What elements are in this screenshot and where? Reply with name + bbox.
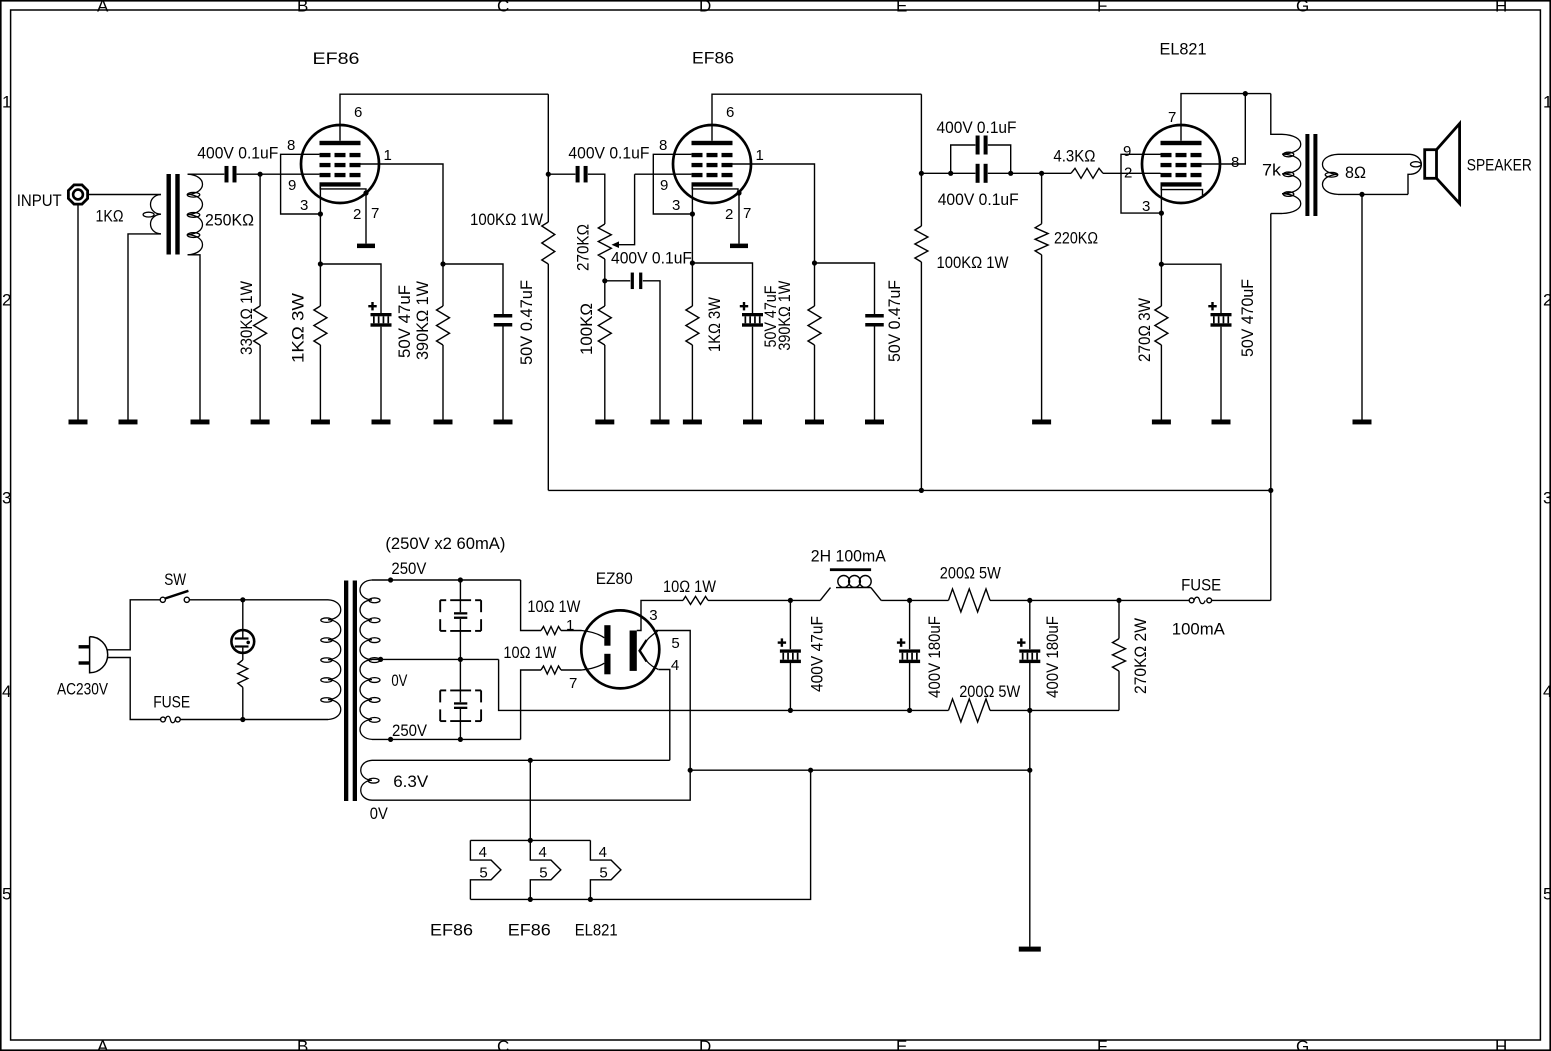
node C14 top <box>788 598 793 603</box>
wire pot to C6 <box>605 280 630 282</box>
transformer T-OUT primary coil (7k) <box>1262 94 1301 214</box>
pin 7 label EZ80 <box>569 675 577 692</box>
node V1 pin2/7 <box>363 190 368 195</box>
svg-text:6: 6 <box>726 104 734 121</box>
heater jumper block EF86 #1 <box>430 840 501 939</box>
pin 9 label V2 <box>660 177 668 194</box>
ground R5 <box>595 420 614 425</box>
resistor R5 100K&#937; <box>577 281 611 420</box>
node caps left <box>948 171 953 176</box>
svg-text:7: 7 <box>743 205 751 222</box>
ground R2 <box>311 420 330 425</box>
wire secondary top lead to speaker <box>1338 153 1410 155</box>
svg-text:270KΩ: 270KΩ <box>574 224 593 271</box>
svg-text:270Ω 3W: 270Ω 3W <box>1135 298 1154 362</box>
transformer T-PWR heater coil (6.3V) <box>361 760 379 800</box>
pin 3 label V1 <box>300 197 308 214</box>
capacitor C16 400V 180uF <box>1017 600 1062 710</box>
svg-text:SPEAKER: SPEAKER <box>1467 156 1532 175</box>
wire V3 plate to top rail <box>1181 94 1271 141</box>
resistor R12 lamp dropper <box>238 648 248 720</box>
potentiometer VR1 270K&#937; <box>574 174 635 281</box>
resistor R9 220K&#937; <box>1035 173 1098 419</box>
wire top tap to R13 <box>521 580 541 631</box>
capacitor C1 400V 0.1uF <box>197 144 278 183</box>
wire V2 cathode chain <box>691 187 693 306</box>
svg-text:EF86: EF86 <box>430 921 473 940</box>
node VR1 bottom <box>602 278 607 283</box>
wire C7 to ground <box>752 327 754 420</box>
fuse F1 (mains FUSE) <box>153 693 190 723</box>
label 0V center <box>391 671 408 690</box>
node block3 return <box>588 897 593 902</box>
svg-text:250V: 250V <box>392 721 428 740</box>
wire main ground riser <box>1029 710 1031 946</box>
svg-text:2: 2 <box>353 206 361 223</box>
svg-text:D: D <box>699 0 711 16</box>
ground main PSU <box>1019 947 1041 952</box>
svg-text:4: 4 <box>599 844 607 861</box>
svg-text:270KΩ 2W: 270KΩ 2W <box>1131 618 1150 694</box>
svg-text:8: 8 <box>1231 154 1239 171</box>
transformer T-OUT core <box>1305 134 1317 216</box>
transformer T-PWR HT secondary coil <box>360 580 380 739</box>
svg-text:4: 4 <box>2 682 11 701</box>
svg-text:400V 0.1uF: 400V 0.1uF <box>568 144 649 163</box>
svg-text:3: 3 <box>1543 489 1551 508</box>
wire secondary top to C1 <box>188 173 224 175</box>
svg-text:50V 47uF: 50V 47uF <box>395 285 414 358</box>
svg-text:F: F <box>1097 1037 1107 1051</box>
pin 9 label V1 <box>288 177 296 194</box>
capacitor C13 snubber <box>440 690 481 739</box>
svg-text:10Ω 1W: 10Ω 1W <box>527 597 580 616</box>
capacitor C5 400V 0.1uF <box>568 144 649 183</box>
capacitor C4 50V 0.47uF <box>494 280 536 365</box>
node tap 0V <box>378 657 383 662</box>
ground jack sleeve <box>69 420 88 425</box>
pin 5 label EZ80 <box>671 635 679 652</box>
pin 7 label V3 <box>1168 109 1176 126</box>
svg-text:400V 0.1uF: 400V 0.1uF <box>197 144 278 163</box>
wire V3 screen to rail <box>1202 94 1246 164</box>
svg-text:INPUT: INPUT <box>17 191 62 210</box>
wire fuse to transformer <box>180 719 328 721</box>
switch SW <box>160 570 189 602</box>
resistor R2 1K&#937; 3W <box>289 293 327 420</box>
wire jack tip to transformer primary <box>88 194 161 196</box>
ground R9 <box>1032 420 1051 425</box>
node heater feed <box>528 758 533 763</box>
ground C6 <box>651 420 670 425</box>
svg-text:EZ80: EZ80 <box>596 569 633 588</box>
node rail at R8 <box>919 488 924 493</box>
svg-text:F: F <box>1097 0 1107 16</box>
wire V1 pin8 strap <box>281 154 321 214</box>
svg-text:400V 0.1uF: 400V 0.1uF <box>938 190 1019 209</box>
ground speaker return <box>1353 420 1372 425</box>
wire C5 to pot top <box>588 174 605 224</box>
node V1 cathode-box <box>318 211 323 216</box>
wire lower cap branch <box>951 172 1011 174</box>
wire EZ80 pin3 to B+ <box>637 600 683 630</box>
svg-text:5: 5 <box>2 885 11 904</box>
wire EZ80 pin4 <box>658 670 669 761</box>
heater jumper block EL821 <box>575 840 621 939</box>
pin 3 label V3 <box>1142 198 1150 215</box>
speaker SP1 <box>1425 124 1532 204</box>
wire V2 plate to top rail <box>712 94 921 141</box>
wire T-OUT primary bottom to B+ riser <box>1270 214 1272 601</box>
wire HT center tap <box>372 658 499 660</box>
transformer T-IN secondary coil (250K&#937;) <box>187 174 254 255</box>
pin 2 label V1 <box>353 206 361 223</box>
wire V1 screen <box>361 164 444 306</box>
svg-text:B: B <box>297 1037 308 1051</box>
node block2 feed <box>528 838 533 843</box>
ground R11 <box>1152 420 1171 425</box>
wire plug live <box>107 600 160 650</box>
neon lamp NE1 <box>231 600 254 653</box>
wire V2 pin8 strap <box>653 154 692 214</box>
wire bottom tap to R14 <box>521 670 541 739</box>
wire switch to transformer <box>189 599 328 601</box>
pin 6 label V2 <box>726 104 734 121</box>
svg-text:7: 7 <box>371 205 379 222</box>
transformer T-OUT secondary coil (8&#937;) <box>1322 154 1366 194</box>
svg-text:EL821: EL821 <box>575 921 618 940</box>
svg-text:4: 4 <box>671 657 679 674</box>
svg-text:100KΩ 1W: 100KΩ 1W <box>470 210 543 229</box>
wire primary bottom to ground <box>128 234 161 420</box>
svg-text:220KΩ: 220KΩ <box>1054 229 1098 248</box>
node tap 250V top <box>388 577 393 582</box>
wire C11 to ground <box>1220 327 1222 420</box>
ground V1 pin7 <box>357 244 375 249</box>
ground input primary <box>119 420 138 425</box>
node V1 plate junction <box>546 172 551 177</box>
capacitor C7 50V 47uF <box>740 286 780 348</box>
wire fuse to riser <box>1212 599 1271 601</box>
wire plug neutral <box>107 658 161 720</box>
svg-text:4: 4 <box>479 844 487 861</box>
pin 4 label EZ80 <box>671 657 679 674</box>
capacitor C14 400V 47uF <box>778 600 827 710</box>
svg-text:EF86: EF86 <box>313 49 360 68</box>
svg-text:6.3V: 6.3V <box>393 772 429 791</box>
wire speaker return to ground <box>1361 194 1363 419</box>
svg-text:2: 2 <box>2 291 11 310</box>
transformer T-PWR primary coil <box>321 600 341 720</box>
svg-text:3: 3 <box>300 197 308 214</box>
node R18 top <box>1116 598 1121 603</box>
node V3 cathode <box>1159 211 1164 216</box>
ground input secondary <box>191 420 210 425</box>
svg-text:1KΩ: 1KΩ <box>96 207 124 226</box>
node B+ riser to rail <box>1268 488 1273 493</box>
wire caps to R10 junction <box>1011 172 1071 174</box>
svg-text:5: 5 <box>539 865 547 882</box>
wire heater block feed <box>529 760 531 840</box>
node snubber bottom <box>458 737 463 742</box>
svg-text:9: 9 <box>660 177 668 194</box>
node heater 0V junction <box>688 768 693 773</box>
wire heater blocks bottom rail <box>470 770 810 899</box>
ground R7 <box>805 420 824 425</box>
wire V1 plate to top rail <box>340 94 548 141</box>
wire R14 to EZ80 pin7 <box>561 669 582 671</box>
pin 8 label V3 <box>1231 154 1239 171</box>
svg-text:G: G <box>1296 0 1309 16</box>
svg-text:7: 7 <box>1168 109 1176 126</box>
svg-text:C: C <box>497 0 509 16</box>
node C15 top <box>907 598 912 603</box>
capacitor C15 400V 180uF <box>897 600 944 710</box>
svg-text:6: 6 <box>354 104 362 121</box>
svg-text:B: B <box>297 0 308 16</box>
svg-text:4.3KΩ: 4.3KΩ <box>1053 147 1095 166</box>
pin 2 label V3 <box>1124 165 1132 182</box>
svg-text:D: D <box>699 1037 711 1051</box>
label power rating <box>385 534 505 553</box>
svg-text:2: 2 <box>725 206 733 223</box>
svg-text:5: 5 <box>479 865 487 882</box>
wire secondary bottom to ground <box>188 255 200 420</box>
pin 1 label V1 <box>384 147 392 164</box>
svg-text:330KΩ 1W: 330KΩ 1W <box>237 281 256 355</box>
tube V1 EF86 <box>301 49 379 203</box>
svg-text:390KΩ 1W: 390KΩ 1W <box>413 281 432 360</box>
resistor R6 1K&#937; 3W <box>686 297 724 420</box>
svg-text:1: 1 <box>1543 93 1551 112</box>
node V1 screen junction <box>440 261 445 266</box>
resistor R4 100K&#937; 1W plate load <box>470 94 555 490</box>
wire R16 to fuse <box>990 599 1189 601</box>
svg-text:250V: 250V <box>391 559 427 578</box>
pin 3 label V2 <box>672 197 680 214</box>
ground V2 pin7 <box>730 244 748 249</box>
svg-text:3: 3 <box>2 489 11 508</box>
fuse F2 100mA <box>1172 576 1226 639</box>
wire B+ bottom rail <box>548 489 1271 491</box>
node V2 cathode-box <box>690 211 695 216</box>
node lamp top <box>240 597 245 602</box>
svg-text:SW: SW <box>164 570 186 589</box>
svg-text:0V: 0V <box>391 671 408 690</box>
label 0V heater <box>370 804 389 823</box>
svg-text:250KΩ: 250KΩ <box>205 211 254 230</box>
wire V3 cathode chain <box>1160 187 1162 306</box>
node speaker return <box>1359 192 1364 197</box>
resistor R17 200&#937; 5W <box>949 682 1021 722</box>
wire B- rail right <box>990 709 1119 711</box>
wire V3 pin9 strap <box>1121 154 1161 213</box>
ground C11 <box>1212 420 1231 425</box>
ground R3 <box>434 420 453 425</box>
wire heater rail to ground riser <box>690 769 1030 771</box>
svg-text:A: A <box>97 0 109 16</box>
node ground riser heater <box>1027 768 1032 773</box>
pin 6 label V1 <box>354 104 362 121</box>
svg-text:2: 2 <box>1543 291 1551 310</box>
wire heater blocks top rail <box>470 839 590 841</box>
svg-text:C: C <box>497 1037 509 1051</box>
choke L1 2H 100mA <box>811 547 887 601</box>
svg-text:10Ω 1W: 10Ω 1W <box>663 577 716 596</box>
tube V2 EF86 <box>673 48 751 203</box>
wire 0V heater rail <box>372 631 690 801</box>
tube V4 EZ80 <box>581 569 659 688</box>
svg-text:5: 5 <box>1543 885 1551 904</box>
resistor R16 200&#937; 5W <box>940 564 1001 612</box>
svg-text:100KΩ 1W: 100KΩ 1W <box>937 253 1009 272</box>
wire plate to C5 <box>548 173 575 175</box>
svg-text:G: G <box>1296 1037 1309 1051</box>
node V2 cathode-bypass <box>690 260 695 265</box>
svg-text:E: E <box>896 0 907 16</box>
svg-text:9: 9 <box>1123 143 1131 160</box>
svg-text:1: 1 <box>566 617 574 634</box>
svg-text:E: E <box>896 1037 907 1051</box>
wire V1 cathode chain <box>319 187 321 306</box>
transformer T-IN core <box>167 174 180 255</box>
wire V2 cathode to C7 <box>692 263 752 313</box>
svg-text:EL821: EL821 <box>1160 40 1207 59</box>
wire C3 to ground <box>380 327 382 420</box>
wire center tap to B- rail <box>499 659 949 710</box>
node snubber top <box>458 577 463 582</box>
pin 1 label V2 <box>756 147 764 164</box>
svg-text:H: H <box>1495 0 1507 16</box>
wire C4 to ground <box>502 327 504 420</box>
svg-text:8Ω: 8Ω <box>1345 163 1366 182</box>
wire HT bottom tap <box>372 738 521 740</box>
wire 6.3V rail <box>372 759 670 761</box>
svg-text:1: 1 <box>2 93 11 112</box>
svg-text:8: 8 <box>659 137 667 154</box>
node C14 bottom <box>788 708 793 713</box>
wire R15 to C14 <box>708 599 820 601</box>
svg-text:EF86: EF86 <box>508 921 551 940</box>
pin 3 label EZ80 <box>649 607 657 624</box>
pin 7 label V2 <box>743 205 751 222</box>
pin 8 label V2 <box>659 137 667 154</box>
capacitor C8 50V 0.47uF <box>865 280 904 362</box>
resistor R7 390K&#937; 1W <box>775 281 821 420</box>
svg-text:50V 0.47uF: 50V 0.47uF <box>885 280 904 362</box>
node caps right <box>1008 171 1013 176</box>
ground C3 <box>372 420 391 425</box>
wire choke to R16 <box>881 599 948 601</box>
svg-text:FUSE: FUSE <box>153 693 190 712</box>
wire V1 pin7 to ground <box>365 193 367 244</box>
svg-text:2: 2 <box>1124 165 1132 182</box>
node V2 pin2/7 <box>736 190 741 195</box>
label 6.3V <box>393 772 429 791</box>
heater jumper block EF86 #2 <box>508 840 561 939</box>
node V1 grid junction <box>258 172 263 177</box>
transformer T-PWR core <box>344 581 357 802</box>
svg-text:5: 5 <box>671 635 679 652</box>
node C16 bottom <box>1027 708 1032 713</box>
svg-text:1: 1 <box>384 147 392 164</box>
wire cathode to C11 <box>1161 264 1221 313</box>
svg-text:AC230V: AC230V <box>57 680 109 699</box>
svg-text:4: 4 <box>539 844 547 861</box>
speaker voice-coil loop <box>1408 154 1421 194</box>
wire C8 to ground <box>874 327 876 420</box>
svg-text:0V: 0V <box>370 804 389 823</box>
AC plug (AC230V) <box>57 637 109 699</box>
pin 1 label EZ80 <box>566 617 574 634</box>
wire cathode to C3 <box>320 264 381 313</box>
pin 7 label V1 <box>371 205 379 222</box>
wire screen to C8 <box>815 263 875 314</box>
svg-text:2H 100mA: 2H 100mA <box>811 547 887 566</box>
wire R13 to EZ80 pin1 <box>561 630 582 632</box>
resistor R10 4.3K&#937; <box>1053 147 1103 179</box>
svg-text:200Ω 5W: 200Ω 5W <box>959 682 1020 701</box>
node R9 top <box>1039 171 1044 176</box>
pin 8 label V1 <box>287 137 295 154</box>
svg-text:100KΩ: 100KΩ <box>577 303 596 355</box>
ground R1 <box>251 420 270 425</box>
resistor R11 270&#937; 3W <box>1135 298 1168 420</box>
svg-text:1KΩ 3W: 1KΩ 3W <box>705 297 724 352</box>
resistor R3 390K&#937; 1W <box>413 281 450 420</box>
svg-text:A: A <box>97 1037 109 1051</box>
capacitor C9 400V 0.1uF <box>937 118 1017 155</box>
svg-text:50V 470uF: 50V 470uF <box>1238 279 1257 357</box>
ground R6 <box>683 420 702 425</box>
svg-text:3: 3 <box>649 607 657 624</box>
svg-text:8: 8 <box>287 137 295 154</box>
svg-text:400V 180uF: 400V 180uF <box>925 616 944 698</box>
ground C7 <box>743 420 762 425</box>
svg-text:50V 0.47uF: 50V 0.47uF <box>517 280 536 365</box>
svg-text:FUSE: FUSE <box>1181 576 1221 595</box>
svg-text:EF86: EF86 <box>692 48 734 67</box>
resistor R1 330K&#937; 1W <box>237 176 267 420</box>
input jack J1 (INPUT) <box>17 185 88 210</box>
transformer T-IN primary coil (1K&#937;) <box>96 195 162 234</box>
label 250V top <box>391 559 427 578</box>
svg-text:400V 180uF: 400V 180uF <box>1043 616 1062 698</box>
svg-text:400V 47uF: 400V 47uF <box>808 616 827 692</box>
svg-text:100mA: 100mA <box>1172 620 1226 639</box>
resistor R8 100K&#937; 1W plate load <box>915 94 1009 490</box>
node C15 bottom <box>907 708 912 713</box>
wire screen to C4 <box>443 264 503 314</box>
wire C6 to ground <box>643 281 660 420</box>
label 250V bottom <box>392 721 428 740</box>
wire HT top tap <box>372 579 521 581</box>
capacitor C11 50V 470uF <box>1208 279 1257 357</box>
resistor R14 10&#937; 1W <box>503 643 561 674</box>
node snubber mid <box>458 657 463 662</box>
wire V2 screen <box>733 164 815 306</box>
tube V3 EL821 <box>1142 40 1220 204</box>
node heater return <box>808 768 813 773</box>
node lamp bottom <box>240 717 245 722</box>
ground C4 <box>494 420 513 425</box>
wire R10 to V3 grid <box>1103 172 1161 174</box>
svg-text:4: 4 <box>1543 682 1551 701</box>
svg-text:5: 5 <box>599 865 607 882</box>
svg-text:7: 7 <box>569 675 577 692</box>
svg-text:10Ω 1W: 10Ω 1W <box>503 643 556 662</box>
wire plate to parallel caps <box>921 172 950 174</box>
